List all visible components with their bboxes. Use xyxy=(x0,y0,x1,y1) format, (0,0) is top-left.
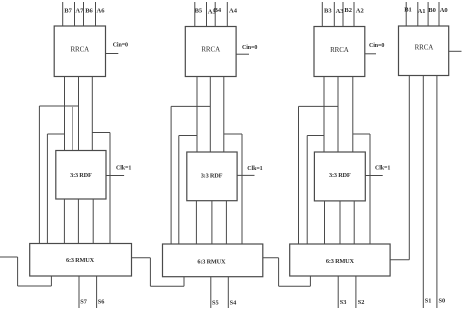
wire carry riser U9 to U6 xyxy=(278,258,280,286)
wire U2 out-left to RMUX xyxy=(63,199,65,244)
wire hook2 leg to RMUX U7 xyxy=(306,136,308,245)
wire U10 carry down to U9 xyxy=(408,76,410,260)
wire Cin stub U10 xyxy=(449,50,462,52)
wire U7 sum-mid to RDF xyxy=(337,77,339,153)
wire carry-out bottom run U3 xyxy=(18,285,52,287)
wire hook3 horizontal U1 xyxy=(92,132,110,134)
wire hook1 horizontal U4 xyxy=(171,105,210,107)
wire S4 output xyxy=(227,277,229,308)
wire hook1 leg to RMUX U4 xyxy=(170,106,172,244)
wire carry into U6 right xyxy=(263,257,279,259)
wire faint drop to RDF U1 xyxy=(72,106,74,151)
wire carry into U3 right xyxy=(132,257,151,259)
wire hook1 leg to RMUX U7 xyxy=(298,106,300,244)
wire U7 sum-left to RDF xyxy=(323,77,325,153)
wire hook3 horizontal U7 xyxy=(353,133,370,135)
wire U5 out-left to RMUX xyxy=(195,201,197,244)
wire S1 output xyxy=(422,76,424,309)
wire carry-out riser U3 xyxy=(17,257,19,286)
svg-text:S3: S3 xyxy=(340,299,347,306)
wire Cin stub U7 xyxy=(365,53,376,55)
wire hook2 horizontal U1 xyxy=(47,133,64,135)
svg-text:B2: B2 xyxy=(344,7,352,14)
wire hook2 horizontal U4 xyxy=(179,135,197,137)
svg-text:S5: S5 xyxy=(212,300,219,307)
wire Cin stub U4 xyxy=(236,53,249,55)
wire U5 out-mid to RMUX xyxy=(211,201,213,244)
wire U8 out-mid to RMUX xyxy=(339,201,341,244)
RMUX U3 box xyxy=(30,244,132,277)
wire carry bottom run U9 to U6 xyxy=(279,285,311,287)
RDF U2 box xyxy=(56,151,106,200)
svg-text:B7: B7 xyxy=(64,7,72,14)
wire Cin stub U2 xyxy=(106,175,124,177)
wire hook1 horizontal U7 xyxy=(299,105,339,107)
wire input A6 U1 xyxy=(95,2,97,26)
svg-text:A4: A4 xyxy=(229,8,238,15)
wire S5 output xyxy=(210,277,212,308)
wire carry port drop U9 xyxy=(309,276,311,286)
wire hook1 horizontal U1 xyxy=(39,105,78,107)
wire hook2 leg to RMUX U4 xyxy=(178,136,180,245)
wire carry riser U6 to U3 xyxy=(149,258,151,286)
wire hook3 horizontal U4 xyxy=(224,133,242,135)
svg-text:3:3 RDF: 3:3 RDF xyxy=(201,172,223,179)
wire U5 out-right to RMUX xyxy=(225,201,227,244)
svg-text:B0: B0 xyxy=(428,7,436,14)
wire input B3 U7 xyxy=(321,2,323,27)
RDF U5 box xyxy=(187,152,237,201)
wire U1 sum-right to RDF xyxy=(91,77,93,151)
svg-text:S7: S7 xyxy=(80,299,87,306)
wire hook3 leg to RMUX U7 xyxy=(369,134,371,244)
wire U4 sum-left to RDF xyxy=(196,77,198,153)
svg-text:B3: B3 xyxy=(324,8,332,15)
wire input A4 U4 xyxy=(226,2,228,27)
svg-text:RRCA: RRCA xyxy=(415,44,434,52)
svg-text:B5: B5 xyxy=(195,7,203,14)
svg-text:A6: A6 xyxy=(97,7,106,14)
RRCA U1 box xyxy=(54,26,105,77)
svg-text:6:3 RMUX: 6:3 RMUX xyxy=(197,258,226,265)
wire input B2 U7 xyxy=(342,2,344,27)
wire input A5 U4 xyxy=(206,2,208,27)
svg-text:B4: B4 xyxy=(214,7,222,14)
wire S0 output xyxy=(436,76,438,309)
wire U4 sum-mid to RDF xyxy=(209,77,211,153)
wire input B7 U1 xyxy=(62,2,64,26)
wire input B5 U4 xyxy=(194,2,196,27)
wire U10 carry into U9 right xyxy=(390,259,409,261)
wire hook2 leg to RMUX U1 xyxy=(46,134,48,244)
svg-text:Clk=1: Clk=1 xyxy=(116,166,131,172)
svg-text:3:3 RDF: 3:3 RDF xyxy=(329,172,351,179)
wire input A7 U1 xyxy=(74,2,76,26)
wire S7 output xyxy=(78,276,80,308)
RRCA U4 box xyxy=(185,27,236,77)
svg-text:RRCA: RRCA xyxy=(330,46,349,54)
svg-text:B1: B1 xyxy=(404,7,412,14)
wire hook3 leg to RMUX U1 xyxy=(109,133,111,244)
svg-text:RRCA: RRCA xyxy=(201,46,220,54)
RRCA U10 box xyxy=(399,26,449,76)
wire Cin stub U1 xyxy=(106,53,119,55)
svg-text:A3: A3 xyxy=(336,8,345,15)
wire Cin stub U8 xyxy=(365,175,382,177)
wire input A1 U10 xyxy=(417,2,419,26)
RMUX U9 box xyxy=(290,244,390,276)
svg-text:Cin=0: Cin=0 xyxy=(369,43,384,49)
svg-text:S1: S1 xyxy=(425,298,432,305)
svg-text:Cin=0: Cin=0 xyxy=(113,42,128,48)
wire S2 output xyxy=(355,276,357,308)
wire Cin stub U5 xyxy=(237,174,254,176)
wire S6 output xyxy=(96,276,98,308)
wire input B1 U10 xyxy=(405,2,407,26)
svg-text:Clk=1: Clk=1 xyxy=(247,166,262,172)
wire U8 out-right to RMUX xyxy=(353,201,355,244)
svg-text:S2: S2 xyxy=(358,299,365,306)
wire hook1 leg to RMUX U1 xyxy=(38,106,40,244)
RRCA U7 box xyxy=(314,27,365,77)
svg-text:Clk=1: Clk=1 xyxy=(375,165,390,171)
wire carry-out port drop U3 xyxy=(50,276,52,286)
svg-text:A1: A1 xyxy=(418,8,426,15)
svg-text:6:3 RMUX: 6:3 RMUX xyxy=(66,257,95,264)
wire U8 out-left to RMUX xyxy=(324,201,326,244)
wire input B4 U4 xyxy=(214,2,216,27)
wire U1 sum-left to RDF xyxy=(64,77,66,151)
svg-text:A7: A7 xyxy=(75,8,84,15)
wire input A3 U7 xyxy=(333,2,335,27)
svg-text:A2: A2 xyxy=(356,8,364,15)
wire input A2 U7 xyxy=(353,2,355,27)
wire U2 out-mid to RMUX xyxy=(77,199,79,244)
wire input B6 U1 xyxy=(83,2,85,26)
wire carry-out exit left xyxy=(0,256,18,258)
wire carry port drop U6 xyxy=(183,277,185,287)
wire hook3 leg to RMUX U4 xyxy=(241,134,243,244)
svg-text:S6: S6 xyxy=(98,299,105,306)
wire carry bottom run U6 to U3 xyxy=(150,285,184,287)
wire S3 output xyxy=(337,276,339,308)
wire hook2 horizontal U7 xyxy=(307,135,324,137)
wire input A0 U10 xyxy=(438,2,440,26)
wire U4 sum-right to RDF xyxy=(223,77,225,153)
svg-text:3:3 RDF: 3:3 RDF xyxy=(70,172,92,179)
wire input B0 U10 xyxy=(427,2,429,26)
svg-text:A0: A0 xyxy=(440,7,448,14)
svg-text:S0: S0 xyxy=(439,298,446,305)
wire U1 sum-mid to RDF xyxy=(78,77,80,151)
svg-text:S4: S4 xyxy=(230,300,238,307)
RMUX U6 box xyxy=(163,244,263,277)
svg-text:6:3 RMUX: 6:3 RMUX xyxy=(326,258,355,265)
svg-text:RRCA: RRCA xyxy=(70,46,89,54)
svg-text:Cin=0: Cin=0 xyxy=(242,45,257,51)
wire U2 out-right to RMUX xyxy=(92,199,94,244)
RDF U8 box xyxy=(314,152,365,201)
wire U7 sum-right to RDF xyxy=(352,77,354,153)
svg-text:B6: B6 xyxy=(85,7,93,14)
